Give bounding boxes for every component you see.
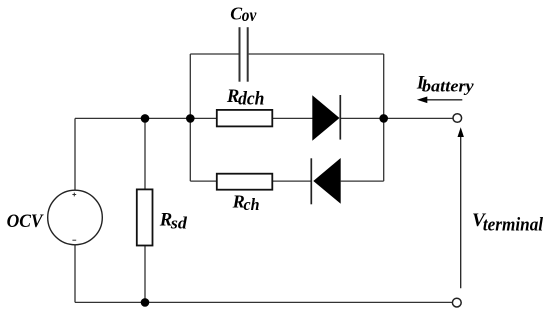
svg-text:terminal: terminal [483, 215, 544, 236]
svg-text:sd: sd [170, 213, 188, 232]
svg-text:battery: battery [422, 76, 475, 95]
svg-text:dch: dch [238, 88, 264, 109]
svg-text:ch: ch [244, 195, 260, 214]
svg-text:ov: ov [242, 5, 257, 25]
svg-text:OCV: OCV [7, 211, 45, 232]
